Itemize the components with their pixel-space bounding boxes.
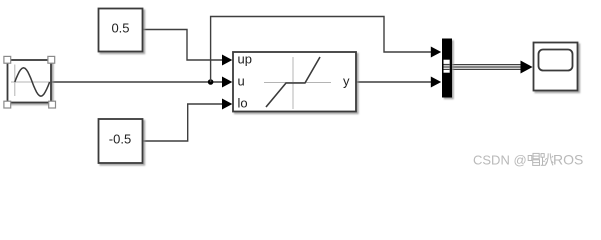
wire from saturation output y to mux input 2 xyxy=(356,81,434,83)
port label u xyxy=(238,73,245,88)
svg-text:u: u xyxy=(238,73,245,88)
svg-text:up: up xyxy=(238,51,252,66)
selection handle top-left xyxy=(4,56,11,63)
sine icon curve xyxy=(15,68,50,96)
saturation icon curve xyxy=(266,57,320,107)
input port arrow u xyxy=(222,77,232,88)
constant block -0.5 xyxy=(99,119,143,163)
mux block xyxy=(442,39,452,98)
constant block 0.5 xyxy=(99,9,143,52)
mux input port arrow 2 xyxy=(431,77,441,88)
watermark chinese glyph tiao xyxy=(541,153,554,165)
selection handle bottom-left xyxy=(4,101,11,108)
mux output notch xyxy=(444,60,450,73)
watermark CSDN xyxy=(473,153,527,168)
mux input port arrow 1 xyxy=(431,47,441,58)
scope block xyxy=(534,43,578,91)
source block Sine Wave xyxy=(8,60,52,103)
svg-text:lo: lo xyxy=(238,95,248,110)
junction dot on u wire xyxy=(208,79,214,85)
input port arrow lo xyxy=(222,99,232,110)
wire from Constant 0.5 to up input xyxy=(143,30,226,61)
vector signal wire from mux to scope (triple line) xyxy=(444,65,521,70)
saturation dynamic block xyxy=(233,52,356,112)
svg-text:ROS: ROS xyxy=(553,152,583,168)
port label lo xyxy=(238,95,248,110)
port label up xyxy=(238,51,252,66)
input port arrow up xyxy=(222,55,232,66)
svg-text:CSDN @: CSDN @ xyxy=(473,153,527,168)
scope input port arrow xyxy=(521,61,533,74)
wire from Constant -0.5 to lo input xyxy=(143,104,226,141)
svg-text:y: y xyxy=(343,73,350,88)
watermark ROS xyxy=(553,152,583,168)
scope screen xyxy=(539,50,573,71)
svg-text:-0.5: -0.5 xyxy=(109,132,131,147)
selection handle top-right xyxy=(48,56,55,63)
wire from Sine Wave to u input xyxy=(52,81,226,83)
saturation icon axes xyxy=(264,57,331,109)
selection handle bottom-right xyxy=(49,101,56,108)
watermark chinese glyph chang xyxy=(528,153,539,165)
port label y xyxy=(343,73,350,88)
sine icon axes xyxy=(11,65,50,97)
svg-text:0.5: 0.5 xyxy=(111,21,129,36)
wire branch from junction to mux input 1 xyxy=(211,17,434,83)
